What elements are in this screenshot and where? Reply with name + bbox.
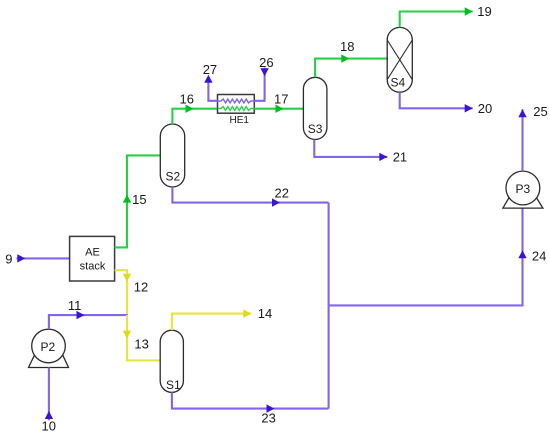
wire stream 16 (S2 overhead to HE1) bbox=[172, 91, 217, 124]
svg-text:AE: AE bbox=[85, 246, 100, 258]
svg-text:12: 12 bbox=[134, 280, 148, 295]
svg-text:S2: S2 bbox=[165, 170, 180, 184]
svg-text:16: 16 bbox=[180, 91, 194, 106]
pump P2 bbox=[29, 329, 69, 367]
wire recycle header (vertical collector) bbox=[328, 203, 330, 409]
wire stream 27 (HE1 hot out, up-left) bbox=[203, 62, 218, 101]
svg-text:23: 23 bbox=[261, 411, 275, 426]
svg-text:20: 20 bbox=[478, 101, 492, 116]
HE1 cold-side coil (green zigzag) bbox=[218, 107, 255, 111]
wire stream 10 (feed to P2) bbox=[42, 368, 56, 433]
svg-text:19: 19 bbox=[477, 4, 491, 19]
svg-text:22: 22 bbox=[275, 186, 289, 201]
wire stream 12 (AE stack to junction) bbox=[115, 270, 149, 315]
svg-text:P2: P2 bbox=[41, 340, 56, 354]
pump P3 bbox=[503, 171, 543, 208]
wire stream 22 (S2 bottoms to header) bbox=[172, 186, 328, 207]
vessel S1 bbox=[160, 330, 183, 392]
svg-text:P3: P3 bbox=[516, 182, 531, 196]
svg-text:27: 27 bbox=[203, 62, 217, 77]
wire stream 23 (S1 bottoms to header) bbox=[172, 392, 329, 425]
wire stream 19 (S4 overhead out) bbox=[400, 4, 492, 28]
svg-text:26: 26 bbox=[259, 55, 273, 70]
svg-text:10: 10 bbox=[42, 418, 56, 433]
HE1 hot-side coil (purple zigzag) bbox=[218, 99, 255, 103]
wire stream 14 (S1 overhead) bbox=[172, 306, 272, 330]
svg-text:21: 21 bbox=[393, 150, 407, 165]
wire stream 13 (junction to S1) bbox=[123, 315, 160, 361]
heat exchanger HE1 bbox=[218, 95, 255, 126]
svg-text:15: 15 bbox=[132, 192, 146, 207]
svg-text:14: 14 bbox=[258, 306, 272, 321]
svg-text:11: 11 bbox=[68, 298, 82, 313]
vessel S4 (packed column) bbox=[387, 27, 412, 92]
svg-text:S4: S4 bbox=[390, 75, 405, 89]
svg-text:24: 24 bbox=[532, 249, 546, 264]
AE stack unit bbox=[70, 236, 115, 281]
wire stream 21 (S3 bottoms out) bbox=[314, 140, 407, 165]
wire stream 20 (S4 bottoms out) bbox=[400, 92, 493, 116]
wire stream 26 (HE1 hot in, from top) bbox=[254, 55, 273, 101]
wire stream 17 (HE1 to S3) bbox=[254, 91, 303, 113]
vessel S3 bbox=[303, 77, 327, 139]
svg-text:stack: stack bbox=[80, 261, 106, 273]
svg-text:HE1: HE1 bbox=[229, 115, 249, 126]
svg-text:17: 17 bbox=[274, 91, 288, 106]
vessel S2 bbox=[160, 124, 184, 187]
svg-text:9: 9 bbox=[5, 252, 12, 267]
svg-text:13: 13 bbox=[134, 336, 148, 351]
wire stream 11 (P2 to junction) bbox=[49, 298, 128, 329]
wire stream 9 (feed to AE stack) bbox=[5, 252, 69, 267]
wire stream 24 (header to P3) bbox=[329, 208, 547, 305]
wire stream 18 (S3 overhead to S4) bbox=[315, 39, 387, 78]
wire stream 25 (P3 discharge out top) bbox=[518, 104, 547, 171]
svg-text:S3: S3 bbox=[308, 122, 323, 136]
wire stream 15 (AE stack to S2) bbox=[115, 155, 160, 247]
svg-text:25: 25 bbox=[533, 104, 547, 119]
svg-text:S1: S1 bbox=[166, 378, 181, 392]
svg-text:18: 18 bbox=[340, 39, 354, 54]
